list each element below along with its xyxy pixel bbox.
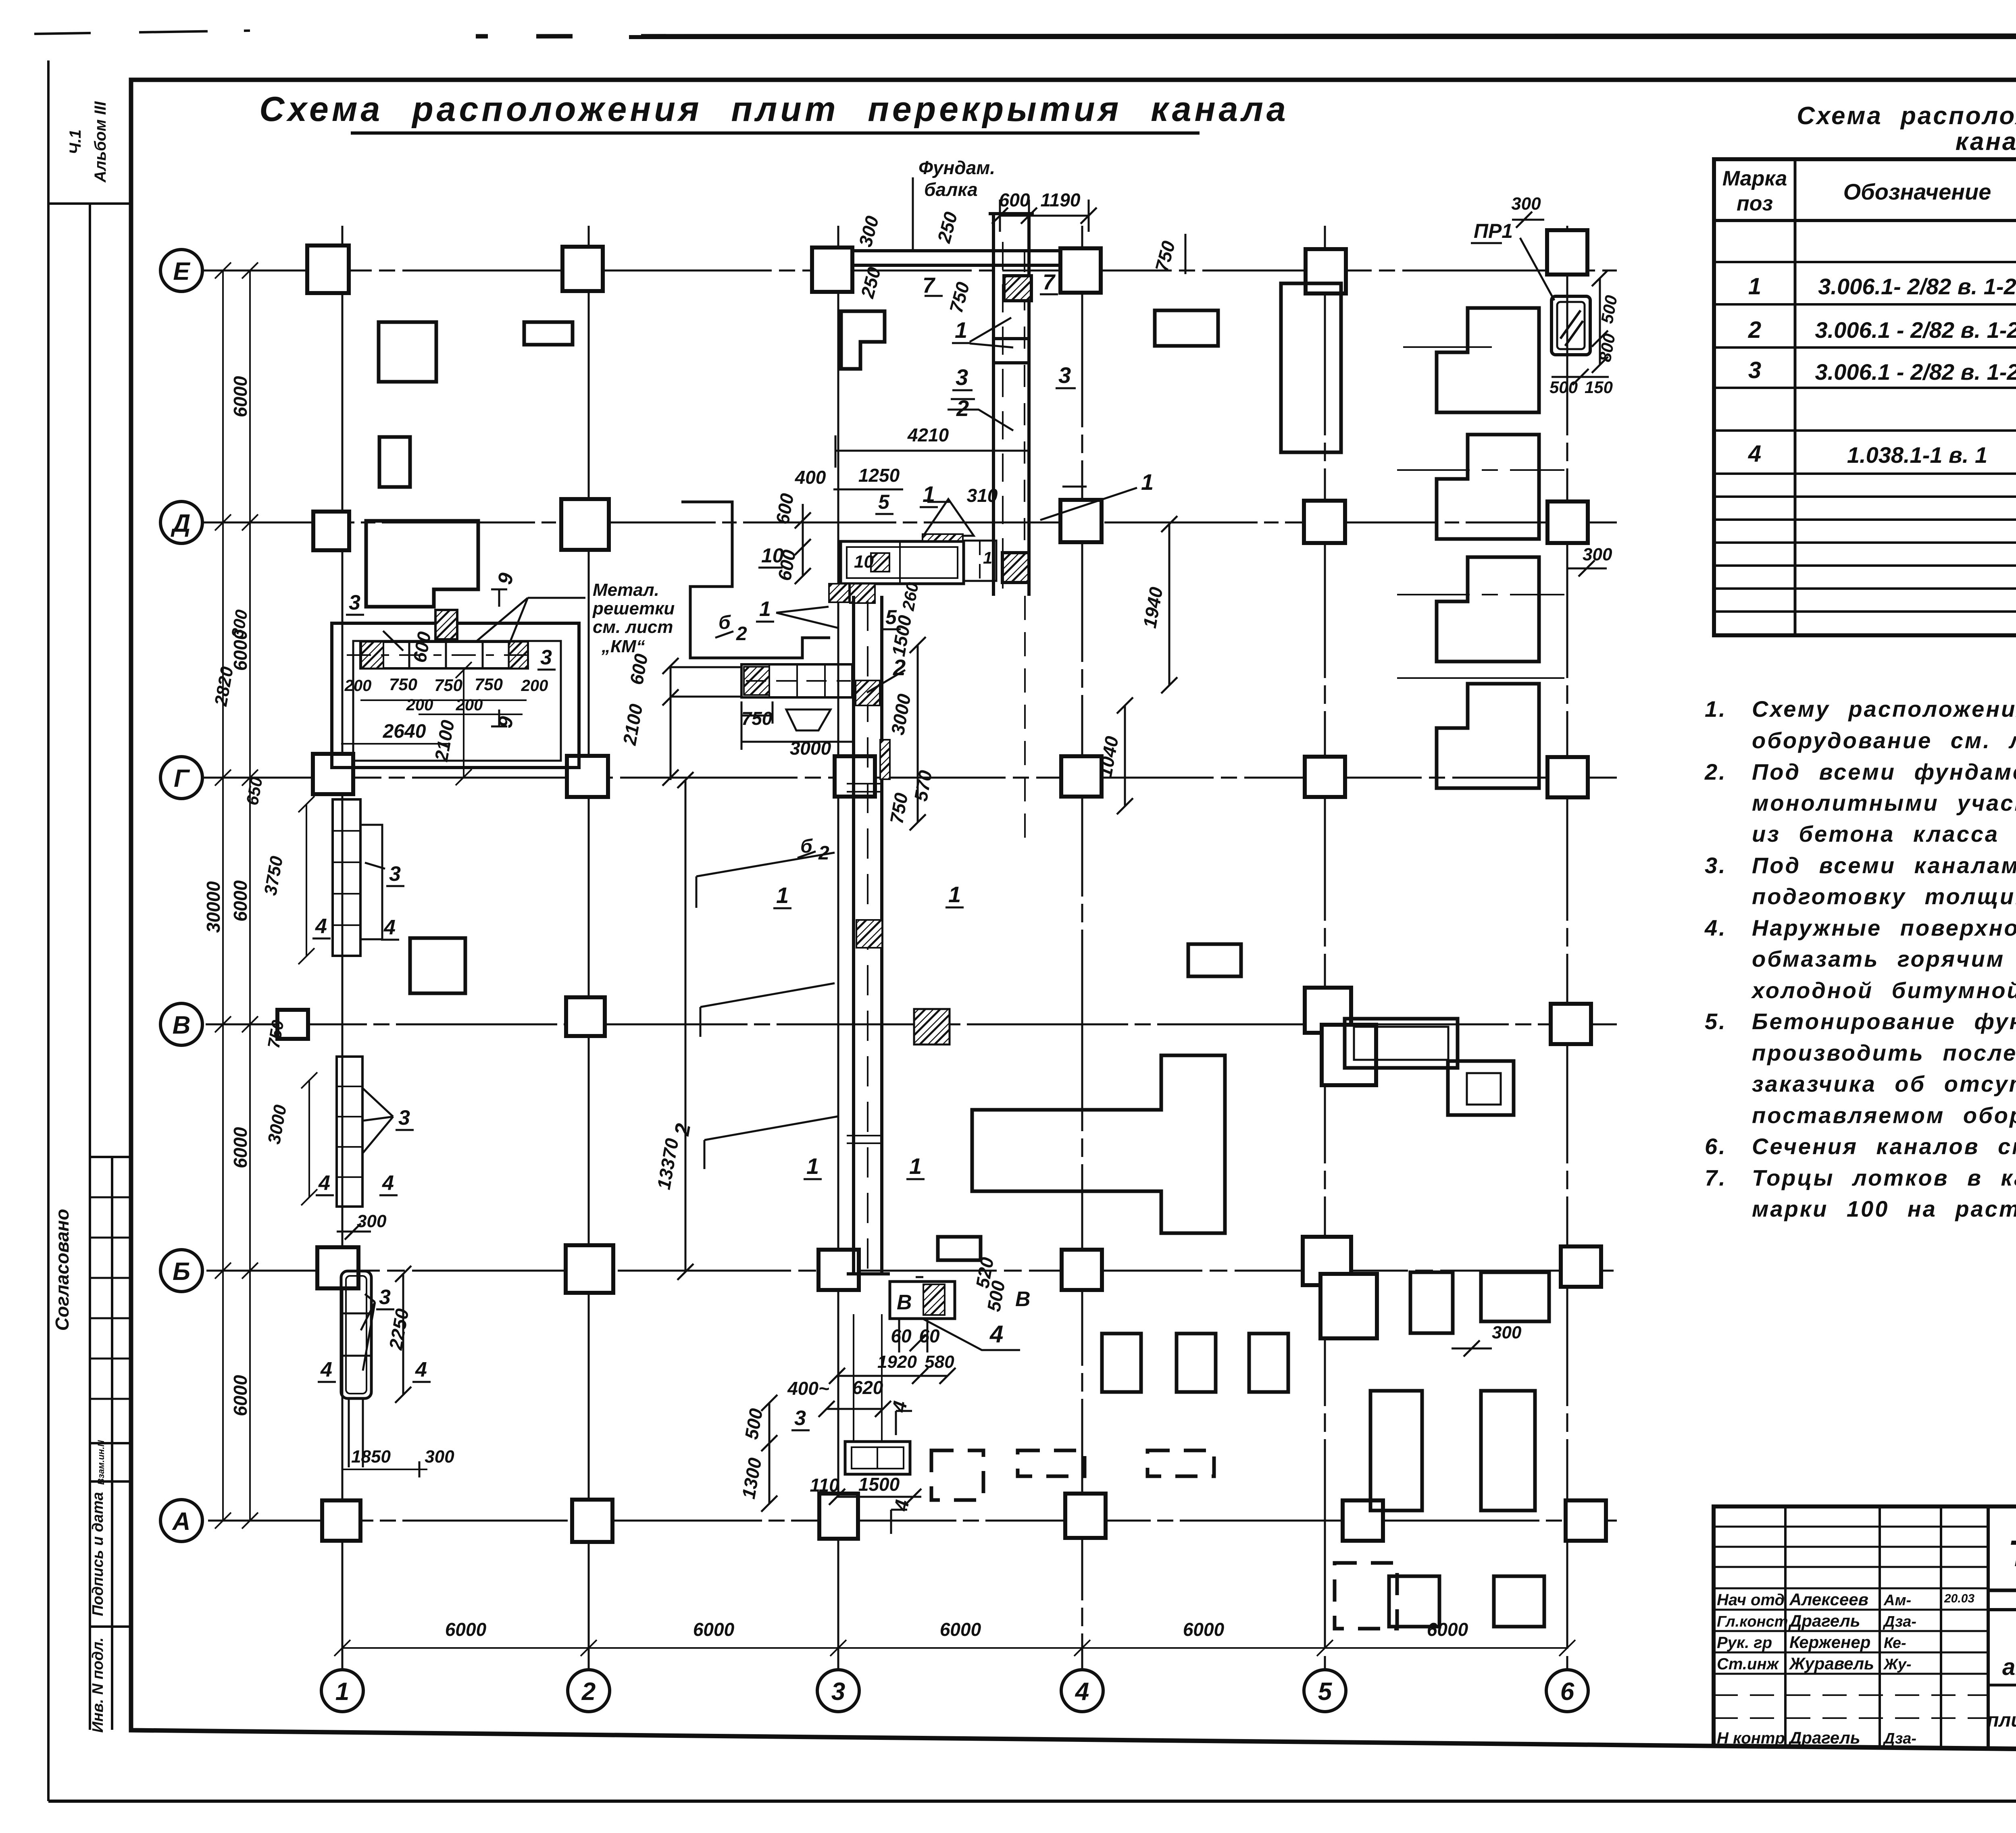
svg-text:310: 310: [967, 485, 998, 506]
svg-text:3: 3: [1058, 362, 1071, 388]
svg-text:Жу-: Жу-: [1883, 1656, 1912, 1673]
svg-text:6: 6: [1560, 1678, 1574, 1706]
svg-text:1: 1: [923, 481, 935, 507]
svg-text:3.006.1- 2/82 в. 1-2: 3.006.1- 2/82 в. 1-2: [1818, 274, 2016, 299]
svg-text:Фундам.: Фундам.: [918, 157, 995, 178]
svg-text:2: 2: [736, 623, 747, 645]
svg-text:А: А: [172, 1508, 191, 1535]
svg-text:6000: 6000: [230, 376, 251, 417]
svg-text:750: 750: [434, 676, 462, 695]
svg-text:150: 150: [1585, 378, 1613, 397]
svg-text:2: 2: [818, 843, 829, 864]
svg-text:1: 1: [776, 882, 789, 908]
svg-text:3: 3: [389, 862, 401, 886]
svg-text:балка: балка: [924, 179, 978, 200]
svg-text:3000: 3000: [790, 738, 831, 759]
svg-text:1.038.1-1 в. 1: 1.038.1-1 в. 1: [1847, 442, 1987, 468]
svg-text:1250: 1250: [858, 465, 900, 486]
svg-text:4: 4: [1075, 1678, 1089, 1706]
svg-text:каналов: каналов: [1956, 128, 2016, 156]
svg-text:200: 200: [456, 696, 483, 714]
svg-text:2640: 2640: [383, 721, 426, 742]
svg-text:6.: 6.: [1705, 1134, 1727, 1159]
svg-text:6000: 6000: [1183, 1619, 1225, 1640]
svg-text:5.: 5.: [1705, 1009, 1727, 1034]
svg-text:поз: поз: [1737, 192, 1773, 215]
svg-text:1500: 1500: [858, 1474, 900, 1495]
svg-text:Согласовано: Согласовано: [52, 1209, 73, 1331]
svg-text:3: 3: [379, 1286, 391, 1309]
svg-text:холодной битумной грунтовк: холодной битумной грунтовке.: [1751, 978, 2016, 1003]
svg-text:Н контр: Н контр: [1717, 1729, 1785, 1747]
svg-text:подготовку толщиной. 100 мм: подготовку толщиной. 100 мм.: [1752, 884, 2016, 909]
svg-text:Под всеми каналами выполнит: Под всеми каналами выполнить песчанную: [1752, 853, 2016, 878]
svg-text:3: 3: [540, 646, 552, 669]
svg-text:300: 300: [1511, 194, 1541, 214]
svg-text:4: 4: [382, 1171, 394, 1195]
svg-text:300: 300: [1583, 545, 1612, 564]
svg-text:Схема расположения плит пер: Схема расположения плит перекрытия канал…: [259, 90, 1289, 129]
svg-text:750: 750: [741, 708, 773, 729]
svg-text:500: 500: [1549, 378, 1578, 397]
svg-text:Взам.ин.N: Взам.ин.N: [96, 1440, 106, 1485]
svg-text:Сечения каналов см. лист 1: Сечения каналов см. лист 14: [1752, 1134, 2016, 1159]
svg-text:ТП 405-7-4 86: ТП 405-7-4 86: [2008, 1533, 2016, 1574]
svg-text:3: 3: [794, 1406, 806, 1430]
svg-text:В: В: [897, 1291, 912, 1314]
svg-text:Альбом III: Альбом III: [92, 101, 109, 183]
svg-text:6000: 6000: [445, 1619, 487, 1640]
svg-text:Журавель: Журавель: [1789, 1654, 1874, 1673]
svg-text:1: 1: [983, 548, 992, 567]
svg-text:В: В: [173, 1011, 191, 1039]
svg-text:6000: 6000: [230, 1127, 251, 1168]
svg-text:монолитными участками выполн: монолитными участками выполнить подготов…: [1752, 790, 2016, 816]
svg-text:3.: 3.: [1705, 853, 1727, 878]
svg-text:5: 5: [1318, 1678, 1333, 1706]
svg-text:Д: Д: [171, 510, 191, 537]
svg-text:3: 3: [398, 1106, 410, 1130]
svg-text:110: 110: [810, 1475, 839, 1496]
svg-text:Ам-: Ам-: [1883, 1592, 1911, 1609]
svg-text:решетки: решетки: [592, 599, 675, 618]
svg-text:Метал.: Метал.: [593, 580, 659, 600]
svg-text:300: 300: [357, 1211, 387, 1231]
svg-text:4210: 4210: [907, 424, 949, 445]
svg-text:см. лист: см. лист: [593, 617, 673, 637]
svg-text:Б: Б: [173, 1258, 190, 1286]
svg-text:обмазать горячим битумом: обмазать горячим битумом за 2 раза по: [1752, 946, 2016, 972]
svg-text:Под всеми фундаментами под: Под всеми фундаментами под оборудование …: [1752, 759, 2016, 784]
svg-text:Е: Е: [173, 258, 190, 285]
svg-text:марки 100 на растворе к: марки 100 на растворе класса В 3.5.: [1752, 1196, 2016, 1221]
svg-text:Марка: Марка: [1722, 167, 1787, 190]
svg-text:750: 750: [389, 675, 417, 694]
svg-text:1850: 1850: [351, 1447, 391, 1467]
svg-text:1: 1: [806, 1153, 819, 1179]
svg-text:7: 7: [1043, 270, 1056, 294]
svg-text:Дза-: Дза-: [1883, 1613, 1916, 1630]
svg-text:3: 3: [956, 364, 968, 390]
svg-text:400: 400: [795, 467, 826, 488]
svg-text:3.006.1 - 2/82 в. 1-2: 3.006.1 - 2/82 в. 1-2: [1815, 317, 2016, 343]
svg-text:6000: 6000: [940, 1619, 981, 1640]
svg-text:6000: 6000: [1427, 1619, 1468, 1640]
svg-text:3: 3: [349, 591, 360, 614]
svg-text:5: 5: [878, 491, 890, 513]
svg-text:Схему расположения каналов: Схему расположения каналов и фундаментов…: [1752, 696, 2016, 722]
svg-text:ПР1: ПР1: [1474, 220, 1513, 242]
svg-text:Рук. гр: Рук. гр: [1717, 1634, 1772, 1652]
svg-text:2: 2: [1748, 317, 1761, 343]
svg-text:Драгель: Драгель: [1788, 1611, 1860, 1630]
svg-text:Инв. N подл.: Инв. N подл.: [90, 1637, 106, 1733]
svg-text:30000: 30000: [203, 881, 224, 933]
svg-text:Ст.инж: Ст.инж: [1717, 1655, 1780, 1673]
svg-text:6000: 6000: [693, 1619, 735, 1640]
svg-text:6000: 6000: [230, 880, 251, 922]
svg-text:7.: 7.: [1705, 1165, 1727, 1190]
svg-text:3.006.1 - 2/82 в. 1-2: 3.006.1 - 2/82 в. 1-2: [1815, 359, 2016, 385]
svg-text:1190: 1190: [1041, 189, 1081, 210]
svg-text:В: В: [1015, 1288, 1031, 1311]
svg-text:3: 3: [831, 1678, 845, 1706]
svg-text:200: 200: [521, 677, 548, 695]
svg-text:200: 200: [406, 696, 433, 714]
svg-text:Гл.конст: Гл.конст: [1717, 1613, 1788, 1630]
svg-text:Нач отд: Нач отд: [1717, 1591, 1785, 1609]
svg-text:620: 620: [852, 1377, 883, 1398]
svg-text:4.: 4.: [1704, 915, 1727, 940]
svg-text:1: 1: [335, 1678, 349, 1706]
svg-text:1: 1: [948, 882, 961, 907]
svg-text:4: 4: [989, 1321, 1003, 1348]
svg-text:Керженер: Керженер: [1789, 1633, 1870, 1652]
svg-text:2.: 2.: [1704, 759, 1727, 784]
svg-text:Драгель: Драгель: [1788, 1728, 1860, 1747]
svg-text:„КМ“: „КМ“: [601, 637, 645, 656]
svg-text:1: 1: [1748, 273, 1761, 300]
svg-text:Алексеев: Алексеев: [1789, 1590, 1868, 1609]
svg-text:580: 580: [925, 1352, 954, 1372]
svg-text:оборудование см. лист 10: оборудование см. лист 10: [1752, 728, 2016, 753]
svg-text:10: 10: [761, 544, 784, 567]
svg-text:300: 300: [1492, 1323, 1522, 1342]
svg-text:1: 1: [1141, 469, 1154, 495]
svg-text:300: 300: [425, 1447, 454, 1467]
svg-text:заказчика об отсутствии: заказчика об отсутствии изменений в: [1752, 1071, 2016, 1096]
svg-text:Ч.1: Ч.1: [67, 129, 84, 154]
svg-text:7: 7: [923, 273, 936, 298]
svg-text:1: 1: [955, 317, 967, 343]
svg-text:1: 1: [759, 597, 771, 621]
svg-text:1.: 1.: [1705, 696, 1727, 722]
svg-text:из бетона класса В 3,5 тол: из бетона класса В 3,5 толщиной 100 мм.: [1752, 821, 2016, 847]
svg-text:6000: 6000: [230, 1375, 251, 1416]
svg-text:20.03: 20.03: [1944, 1592, 1974, 1605]
svg-text:600: 600: [999, 189, 1030, 210]
svg-text:60: 60: [919, 1325, 940, 1346]
svg-text:4: 4: [315, 915, 327, 938]
svg-text:3: 3: [1748, 357, 1761, 383]
svg-text:Дза-: Дза-: [1883, 1730, 1916, 1747]
svg-text:производить после письменн: производить после письменного подтвержде…: [1752, 1040, 2016, 1065]
svg-text:плит перекрытия каналов.: плит перекрытия каналов.: [1987, 1710, 2016, 1731]
svg-text:200: 200: [344, 677, 372, 695]
svg-text:4: 4: [383, 916, 396, 939]
svg-text:1: 1: [909, 1153, 922, 1179]
svg-text:4: 4: [318, 1171, 330, 1195]
svg-text:5: 5: [885, 606, 897, 628]
svg-text:автомобильных шин: автомобильных шин: [2002, 1654, 2016, 1680]
svg-text:4: 4: [320, 1358, 332, 1382]
svg-text:1920: 1920: [877, 1352, 917, 1372]
svg-text:б: б: [719, 612, 731, 633]
svg-text:4: 4: [415, 1358, 427, 1382]
svg-text:10: 10: [854, 552, 874, 572]
svg-text:Схема расположения плит перекр: Схема расположения плит перекрытия: [1797, 102, 2016, 130]
svg-text:750: 750: [475, 675, 503, 694]
svg-text:поставляемом оборудовании.: поставляемом оборудовании.: [1752, 1103, 2016, 1128]
svg-text:60: 60: [891, 1325, 912, 1346]
svg-text:Г: Г: [174, 765, 190, 793]
svg-text:Подпись и дата: Подпись и дата: [90, 1492, 106, 1616]
svg-text:Ке-: Ке-: [1884, 1635, 1906, 1652]
svg-text:400~: 400~: [787, 1378, 829, 1399]
svg-text:4: 4: [1748, 441, 1761, 467]
svg-text:Торцы лотков в каналах закл: Торцы лотков в каналах закладываются кир…: [1752, 1165, 2016, 1190]
svg-text:Наружные поверхности канал: Наружные поверхности каналов и фундамент…: [1752, 915, 2016, 940]
svg-text:Бетонирование фундаментов п: Бетонирование фундаментов под оборудован…: [1752, 1009, 2016, 1034]
svg-text:Обозначение: Обозначение: [1843, 179, 1991, 204]
svg-text:2: 2: [581, 1678, 596, 1706]
